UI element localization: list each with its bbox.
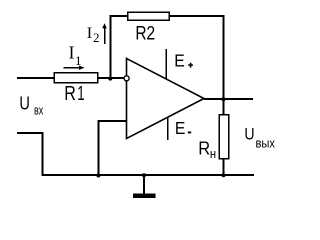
ground: [133, 175, 156, 196]
svg-text:U: U: [19, 93, 30, 114]
wire R2 to right corner: [169, 15, 224, 17]
node dot load rail: [222, 173, 226, 177]
node dot noninverting rail: [96, 174, 100, 178]
wire source bottom stub: [17, 133, 43, 176]
wire bottom rail: [43, 174, 255, 176]
wire feedback right vertical down to load: [223, 15, 225, 115]
svg-text:I: I: [87, 23, 92, 42]
svg-text:I: I: [69, 43, 75, 63]
svg-text:1: 1: [77, 83, 84, 105]
inverting input bubble: [124, 76, 129, 81]
svg-text:E: E: [174, 50, 185, 70]
wire input left to R1: [17, 77, 54, 79]
resistor R2: [128, 12, 169, 20]
wire noninverting stub: [99, 121, 127, 176]
svg-text:2: 2: [146, 23, 155, 45]
svg-text:1: 1: [75, 53, 82, 68]
svg-text:вых: вых: [256, 136, 276, 151]
wire top left to R2: [110, 15, 129, 17]
resistor Rn load: [219, 115, 228, 159]
svg-text:R: R: [198, 138, 210, 158]
svg-text:н: н: [210, 147, 216, 161]
node dot ground rail: [142, 173, 146, 177]
wire load bottom: [223, 159, 225, 176]
svg-text:вх: вх: [34, 102, 44, 117]
node dot output: [221, 97, 225, 101]
resistor R1: [54, 73, 98, 83]
node dot inverting input: [108, 77, 112, 81]
current arrow I2: [102, 23, 107, 44]
svg-text:E: E: [175, 118, 186, 138]
svg-text:R: R: [64, 83, 76, 105]
wire feedback left vertical: [110, 16, 112, 78]
op-amp U1 triangle: [127, 59, 205, 139]
wire output: [204, 98, 253, 100]
svg-text:U: U: [244, 126, 254, 144]
svg-text:2: 2: [93, 30, 100, 45]
current arrow I1: [64, 66, 85, 70]
svg-text:R: R: [135, 23, 146, 45]
op-amp supply pin E-: [167, 117, 169, 140]
op-amp supply pin E+: [165, 49, 167, 79]
wire R1 to inverting node: [98, 77, 127, 79]
